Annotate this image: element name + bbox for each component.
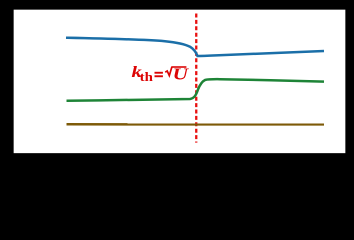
threshold line (red dashed vertical) [195,14,197,143]
blue curve [66,38,324,56]
plot area (white) [13,9,346,153]
axes frame [13,9,346,153]
radical vinculum [171,66,186,68]
svg-text:U: U [173,65,190,84]
plot background [0,0,354,183]
equals sign bars [155,72,163,74]
green curve [67,79,325,101]
radical sign [165,67,172,76]
brown line [67,123,325,126]
svg-text:th: th [140,71,154,85]
